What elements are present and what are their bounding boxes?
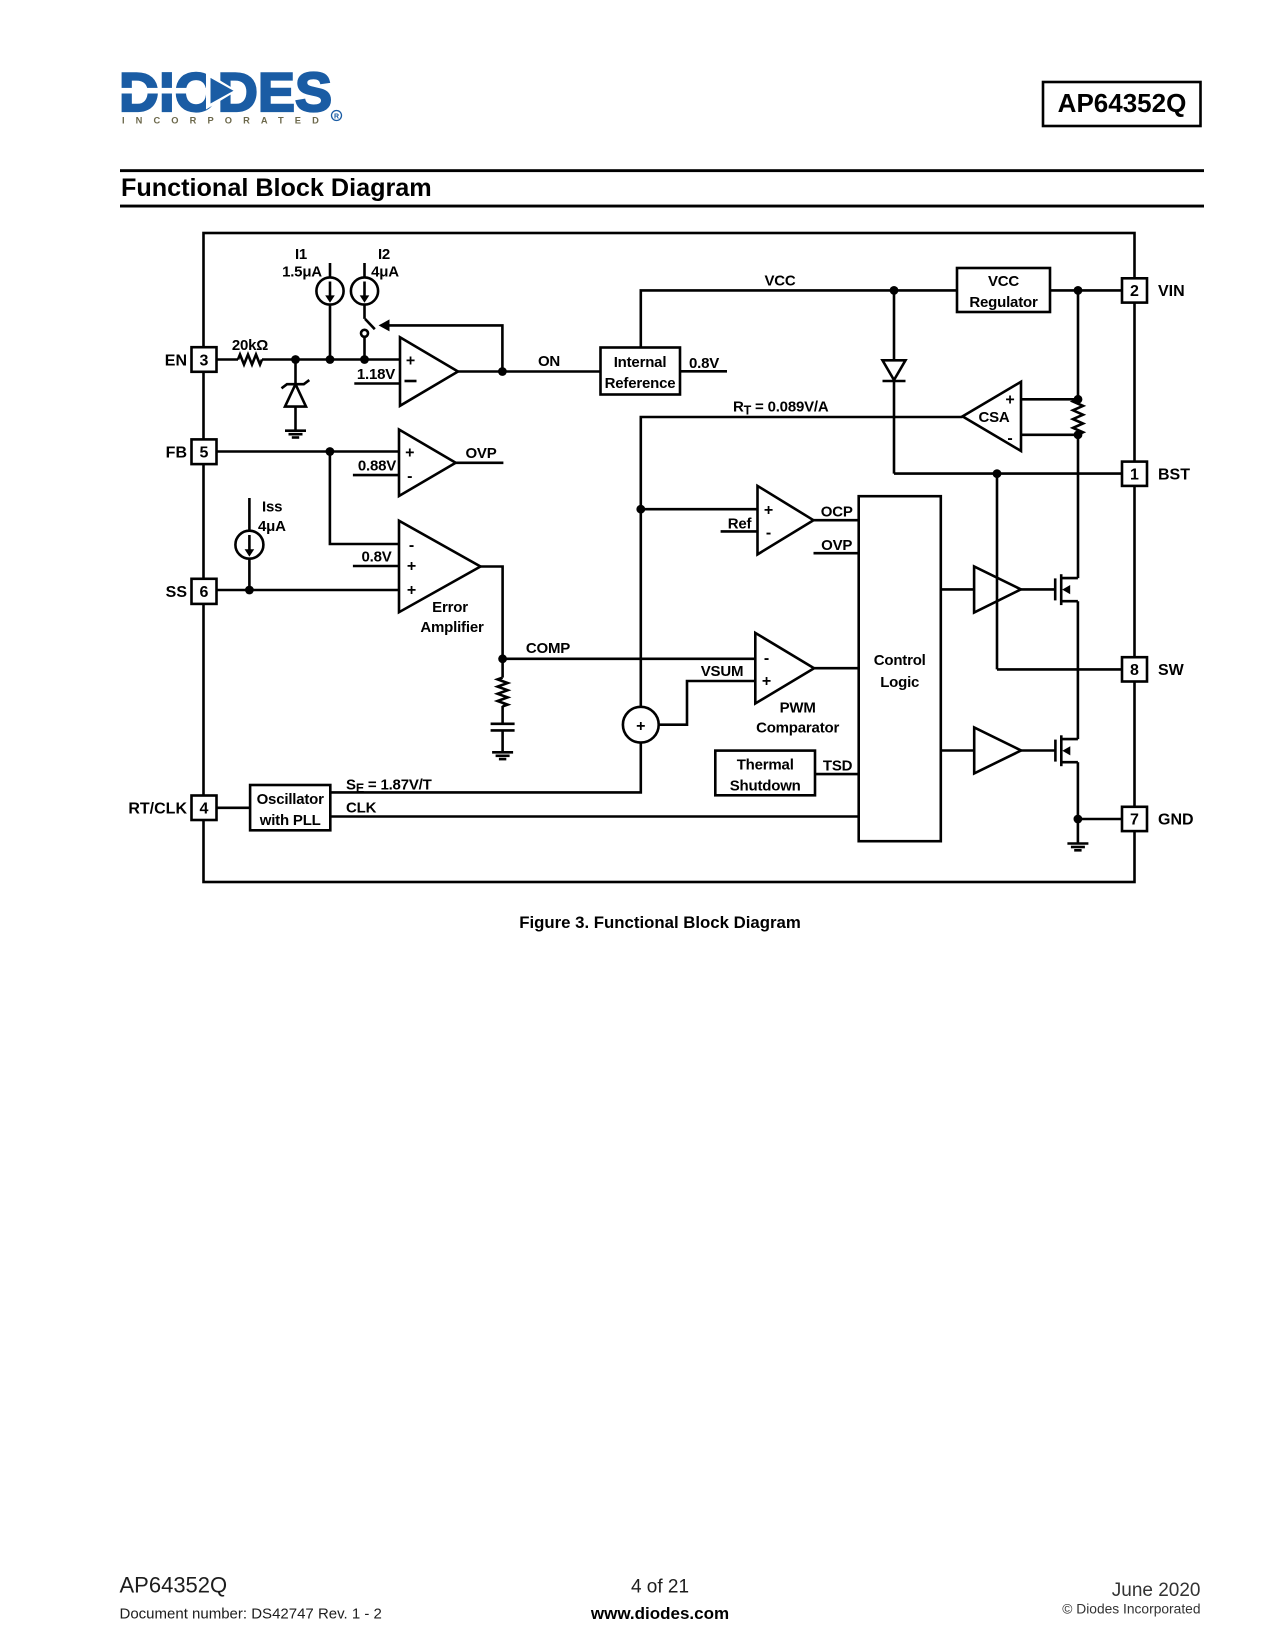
svg-text:VCC: VCC [988,273,1019,290]
wire OVP comparator output [456,461,504,464]
wire control logic to high-side driver [941,588,974,591]
block Oscillator with PLL [250,785,330,830]
node EN I1 junction [326,355,335,364]
svg-text:Document number: DS42747 Rev.: Document number: DS42747 Rev. 1 - 2 [120,1606,382,1623]
node FB junction [326,447,335,456]
current source I1 1.5uA [282,246,344,360]
svg-text:+: + [764,502,773,519]
svg-text:3: 3 [200,352,209,369]
svg-text:SW: SW [1158,662,1185,679]
op-amp Error Amplifier [399,521,484,636]
label 1.18V with underline [354,366,400,384]
svg-text:ON: ON [538,353,560,370]
wire GND line to pin 7 [1078,818,1122,821]
svg-text:PWM: PWM [780,700,816,717]
node Iss junction [245,586,254,595]
svg-text:1.5μA: 1.5μA [282,264,322,281]
pin 4 RT/CLK [128,796,216,821]
svg-text:R: R [334,113,339,120]
switch control wire with arrow from ON node [379,319,503,371]
svg-text:+: + [1005,392,1014,409]
wire SE slope output to summing node [330,743,641,793]
label 0.88V with underline [353,458,399,476]
transistor low-side MOSFET [1055,735,1078,766]
svg-text:-: - [764,650,769,667]
wire TSD to Control Logic [815,773,859,776]
node ON junction dot [498,367,507,376]
wire SS pin to error amp [217,589,400,592]
svg-text:Shutdown: Shutdown [730,778,801,795]
svg-text:Internal: Internal [614,354,667,371]
wire low-side source to GND [1077,762,1080,819]
svg-text:CLK: CLK [346,800,377,817]
svg-text:© Diodes Incorporated: © Diodes Incorporated [1062,1602,1200,1617]
wire CLK to Control Logic [330,815,858,818]
svg-text:Regulator: Regulator [969,294,1038,311]
op-amp EN comparator [400,337,458,406]
svg-text:4 of 21: 4 of 21 [631,1577,689,1598]
pin 5 FB [166,439,217,464]
node EN zener junction [291,355,300,364]
node sense resistor bottom [1074,430,1083,439]
svg-text:RT/CLK: RT/CLK [128,800,187,817]
wire OCP output to Control Logic [814,519,859,522]
op-amp OCP comparator [758,486,814,555]
transistor high-side MOSFET [1055,574,1078,605]
wire PWM output to Control Logic [814,667,859,670]
svg-text:+: + [405,445,414,462]
svg-text:VSUM: VSUM [701,663,744,680]
wire driver to low-side gate [1021,749,1055,752]
wire bootstrap BST to SW [996,474,999,670]
node sense resistor top [1074,395,1083,404]
wire RT/CLK pin to oscillator [217,806,251,809]
pin 6 SS [166,579,217,604]
wire OCP comparator plus input [641,508,758,511]
wire VCC from regulator to internal reference [641,290,957,347]
pin 7 GND [1122,807,1194,831]
svg-text:+: + [407,558,416,575]
block Internal Reference [601,348,681,395]
part number box AP64352Q [1043,82,1201,126]
svg-text:INCORPORATED: INCORPORATED [122,116,330,126]
svg-text:Thermal: Thermal [737,757,794,774]
FOOTER [120,913,1201,1623]
resistor 20k in EN line [238,355,262,365]
svg-text:Logic: Logic [880,674,919,691]
svg-text:I1: I1 [295,246,307,263]
node VCC/diode junction [890,286,899,295]
wire control logic to low-side driver [941,749,974,752]
outer frame [204,233,1135,882]
switch on I2 branch [361,319,375,360]
svg-text:Reference: Reference [605,375,676,392]
svg-text:-: - [407,468,412,485]
svg-text:TSD: TSD [823,758,853,775]
wire EN pin to comparator [217,358,401,361]
svg-text:Amplifier: Amplifier [420,619,484,636]
svg-text:1.18V: 1.18V [357,366,395,383]
wire VCC Regulator to VIN pin [1050,289,1122,292]
op-amp CSA current sense amplifier [963,382,1022,451]
HEADER [118,61,1204,208]
svg-text:0.88V: 0.88V [358,458,396,475]
pin 3 EN [165,347,217,372]
node VIN/sense junction [1074,286,1083,295]
wire zener branch [294,360,297,384]
svg-text:5: 5 [200,445,209,462]
op-amp PWM Comparator [755,633,839,737]
svg-text:VIN: VIN [1158,283,1185,300]
summing junction [623,707,659,743]
svg-text:SS: SS [166,584,188,601]
op-amp OVP comparator [399,430,456,497]
zener diode on EN node [282,380,310,430]
pin 2 VIN [1122,278,1185,302]
wire RT output of CSA to OCP comparator and summing node [641,417,963,707]
wire VIN sense line down to high-side FET [1077,290,1080,578]
svg-text:Oscillator: Oscillator [257,791,325,808]
wire FB pin to OVP comparator [217,450,400,453]
node BST junction [993,469,1002,478]
block VCC Regulator [957,268,1050,312]
diode bootstrap [883,360,906,381]
label Ref with underline [721,516,758,533]
current source Iss 4uA [235,498,286,590]
node COMP junction [498,654,507,663]
svg-text:0.8V: 0.8V [689,355,719,372]
ground below zener [285,431,306,438]
svg-text:RT = 0.089V/A: RT = 0.089V/A [733,399,829,418]
current source I2 4uA [351,246,399,319]
node GND junction [1074,815,1083,824]
svg-text:AP64352Q: AP64352Q [1058,88,1187,118]
svg-text:OCP: OCP [821,504,853,521]
wire OVP input to Control Logic [814,552,859,555]
block Control Logic [859,496,941,841]
svg-text:Iss: Iss [262,499,282,516]
resistor current sense [1073,399,1083,434]
node OCP tap junction [636,505,645,514]
wire low-side drain to SW [1077,669,1080,739]
svg-text:1: 1 [1130,466,1139,483]
wire 0.8V reference output [680,370,727,373]
buffer high-side gate driver [974,566,1021,612]
svg-text:June 2020: June 2020 [1112,1580,1201,1601]
svg-text:2: 2 [1130,283,1139,300]
svg-text:+: + [636,718,645,735]
compensation network: wire, resistor, capacitor, ground [491,659,515,759]
svg-text:8: 8 [1130,662,1139,679]
label 0.8V with underline (error amp) [353,549,399,567]
svg-text:Functional Block Diagram: Functional Block Diagram [121,174,432,202]
wire FB branch to error amp minus input [330,452,399,545]
svg-text:GND: GND [1158,812,1194,829]
svg-text:+: + [762,673,771,690]
svg-text:I2: I2 [378,246,390,263]
wire CSA minus input [1021,433,1078,436]
svg-text:CSA: CSA [978,409,1009,426]
svg-text:OVP: OVP [465,445,496,462]
pin 8 SW [1122,657,1185,681]
svg-text:0.8V: 0.8V [361,549,391,566]
svg-text:FB: FB [166,445,187,462]
svg-text:4μA: 4μA [371,264,399,281]
Diodes Incorporated logo [118,61,342,126]
svg-text:+: + [407,582,416,599]
svg-text:Comparator: Comparator [756,720,839,737]
wire driver to high-side gate [1021,588,1055,591]
section heading [120,169,1204,207]
svg-text:7: 7 [1130,812,1139,829]
svg-text:OVP: OVP [821,537,852,554]
svg-text:Control: Control [874,652,926,669]
svg-text:with PLL: with PLL [259,812,321,829]
wire bootstrap diode branch [893,290,896,473]
svg-text:AP64352Q: AP64352Q [120,1573,228,1598]
svg-text:www.diodes.com: www.diodes.com [590,1604,729,1623]
svg-text:6: 6 [200,584,209,601]
svg-text:-: - [766,525,771,542]
ground power ground [1067,819,1088,850]
node EN I2 junction [360,355,369,364]
svg-text:4μA: 4μA [258,518,286,535]
wire CSA plus input [1021,398,1078,401]
svg-text:BST: BST [1158,466,1190,483]
buffer low-side gate driver [974,728,1021,774]
wire ON comparator output to Internal Reference [458,370,601,373]
svg-text:SE = 1.87V/T: SE = 1.87V/T [346,777,432,796]
block Thermal Shutdown [715,751,815,796]
svg-text:-: - [409,537,414,554]
svg-text:VCC: VCC [764,273,795,290]
svg-text:20kΩ: 20kΩ [232,337,268,354]
svg-text:Error: Error [432,599,468,616]
svg-text:-: - [1007,430,1012,447]
wire high-side source to SW [1077,601,1080,669]
wire SW line to pin 8 [997,668,1122,671]
wire COMP to PWM comparator minus input [503,657,756,660]
svg-text:COMP: COMP [526,640,570,657]
svg-text:EN: EN [165,352,187,369]
wire BST line [894,472,1122,475]
wire summing output to PWM comparator plus input (VSUM) [659,681,756,725]
svg-text:+: + [406,353,415,370]
svg-text:Ref: Ref [728,516,753,533]
wire error amp output to COMP node [481,567,503,659]
pin 1 BST [1122,462,1190,486]
svg-text:Figure 3. Functional Block Dia: Figure 3. Functional Block Diagram [519,913,801,932]
svg-text:4: 4 [200,800,209,817]
